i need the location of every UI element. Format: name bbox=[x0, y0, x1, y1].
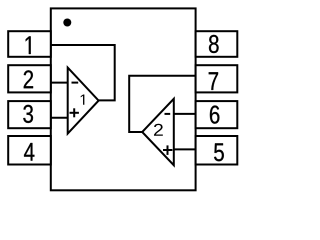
pin box 3 bbox=[8, 101, 51, 128]
op-amp 1 plus sign bbox=[70, 112, 79, 114]
pin 1 marker dot bbox=[63, 19, 71, 27]
pin box 5 bbox=[196, 136, 238, 165]
pin box 2 bbox=[8, 65, 51, 92]
wire pin6 to op-amp 2 inverting input bbox=[174, 113, 196, 115]
wire pin3 to op-amp 1 non-inverting input bbox=[51, 117, 68, 119]
op-amp 2 plus sign bbox=[163, 149, 172, 151]
pin box 4 bbox=[8, 136, 51, 165]
IC body U1 bbox=[51, 8, 196, 190]
op-amp 1 minus sign bbox=[72, 82, 79, 84]
pin box 8 bbox=[196, 31, 238, 57]
wire op-amp 2 output to pin 7 bbox=[129, 76, 195, 132]
op-amp 2 bbox=[142, 99, 174, 165]
op-amp 2 label bbox=[154, 124, 163, 136]
op-amp 2 minus sign bbox=[165, 113, 171, 115]
pin box 6 bbox=[196, 101, 238, 128]
wire pin1 to op-amp 1 output bbox=[51, 45, 115, 100]
wire pin2 to op-amp 1 inverting input bbox=[51, 82, 68, 84]
pin box 7 bbox=[196, 65, 238, 92]
wire pin5 to op-amp 2 non-inverting input bbox=[174, 148, 196, 150]
op-amp 1 label bbox=[81, 95, 85, 105]
op-amp 1 bbox=[68, 68, 99, 134]
pin box 1 bbox=[8, 31, 51, 57]
